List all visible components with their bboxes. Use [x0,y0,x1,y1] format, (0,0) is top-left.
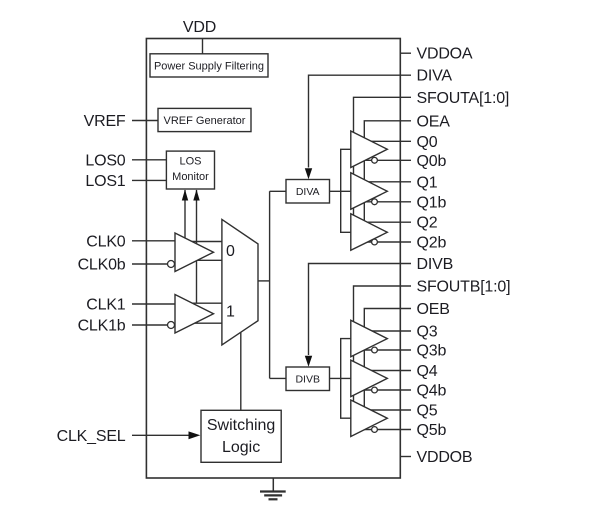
inversion bubble Q0b [372,157,378,163]
wire mux output [257,280,270,282]
wire Q2 output [360,221,411,223]
wire CLK1b input [132,324,168,326]
output buffer A3 [351,214,388,251]
input buffer 1 CLK0 [175,233,214,272]
svg-text:VDDOB: VDDOB [417,449,473,466]
wire OEA route [364,121,411,230]
inversion bubble Q5b [372,427,378,433]
wire DIVB output to bank B [330,377,351,379]
wire SFOUTA route [354,97,412,226]
wire Q1b output [362,201,411,203]
pin stub VDDOA [400,52,411,54]
arrowhead LOS tap 2 [193,190,199,201]
LOS monitor box [166,151,214,189]
svg-text:DIVA: DIVA [417,68,453,85]
wire buffer1 output complement [190,259,223,261]
wire DIVA output to bank A [330,190,351,192]
svg-text:1: 1 [226,304,235,321]
svg-text:Power Supply Filtering: Power Supply Filtering [154,60,264,72]
ground [260,478,286,499]
svg-text:SFOUTB[1:0]: SFOUTB[1:0] [417,279,511,296]
svg-text:CLK0b: CLK0b [78,257,126,274]
svg-text:CLK1: CLK1 [86,297,126,314]
inversion bubble Q4b [372,387,378,393]
mux [222,219,258,345]
wire CLK0b input [132,263,168,265]
wire DIVA box input [270,190,286,192]
svg-text:DIVA: DIVA [296,186,320,198]
wire LOS monitor tap 2 [196,190,198,303]
svg-text:CLK0: CLK0 [86,233,126,250]
svg-text:Q0: Q0 [417,134,438,151]
output buffer A2 [351,173,388,210]
divider DIVB box [286,367,330,391]
wire LOS monitor tap 1 [184,190,186,242]
wire SFOUTB route [354,286,412,413]
pin stub VDDOB [400,456,411,458]
svg-text:Logic: Logic [222,439,260,456]
inversion bubble CLK1b [168,322,175,329]
svg-text:LOS: LOS [179,155,201,167]
svg-text:OEA: OEA [417,113,451,130]
svg-text:Q1b: Q1b [417,194,447,211]
svg-text:Q2: Q2 [417,215,438,232]
svg-text:DIVB: DIVB [295,374,320,386]
output buffer B2 [351,360,388,397]
wire VDD drop [202,39,204,54]
wire buffer1 output true [190,241,223,243]
arrowhead into DIVB [305,356,312,367]
svg-text:Q3b: Q3b [417,343,447,360]
wire Q2b output [362,241,411,243]
svg-text:Q2b: Q2b [417,235,447,252]
wire VREF input [132,120,158,122]
inversion bubble Q3b [372,347,378,353]
wire Q1 output [360,181,411,183]
wire Q0 output [360,140,411,142]
output buffer B3 [351,400,388,437]
svg-text:OEB: OEB [417,301,450,318]
wire buffer2 output true [190,302,223,304]
wire OEB route [364,309,411,418]
svg-text:0: 0 [226,243,235,260]
arrowhead CLK_SEL [189,431,201,439]
svg-text:LOS0: LOS0 [85,152,125,169]
wire bank A input bus [341,149,351,232]
output buffer A1 [351,131,388,168]
svg-text:Q5b: Q5b [417,422,447,439]
svg-text:Q3: Q3 [417,324,438,341]
svg-text:Q5: Q5 [417,403,438,420]
arrowhead LOS tap 1 [182,190,188,201]
power supply filtering box [150,54,268,77]
svg-text:Q0b: Q0b [417,153,447,170]
input buffer 2 CLK1 [175,295,214,334]
output buffer B1 [351,320,388,357]
wire buffer2 output complement [190,322,223,324]
switching logic box [201,410,281,462]
wire DIVA pin route [309,75,412,167]
VREF generator box U_VREF [158,108,251,131]
wire Q5 output [360,409,411,411]
wire Q0b output [362,159,411,161]
svg-text:Switching: Switching [207,417,275,434]
wire bank B input bus [341,339,351,419]
svg-text:CLK_SEL: CLK_SEL [57,428,126,445]
inversion bubble Q2b [372,239,378,245]
svg-text:LOS1: LOS1 [85,173,125,190]
wire Q5b output [362,429,411,431]
wire LOS0 input [132,159,166,161]
wire DIVB pin route [309,264,412,356]
arrowhead into DIVA [305,168,312,179]
svg-text:VDDOA: VDDOA [417,46,473,63]
wire LOS1 input [132,179,166,181]
svg-text:Q4b: Q4b [417,383,447,400]
svg-text:SFOUTA[1:0]: SFOUTA[1:0] [417,90,510,107]
inversion bubble CLK0b [168,261,175,268]
svg-text:DIVB: DIVB [417,256,454,273]
wire Q4 output [360,370,411,372]
svg-text:Monitor: Monitor [172,171,209,183]
svg-text:Q1: Q1 [417,174,438,191]
wire Q3b output [362,349,411,351]
wire divider feed vertical [269,191,271,378]
wire CLK0 input [132,240,175,242]
svg-text:VREF: VREF [84,113,126,130]
wire Q4b output [362,389,411,391]
main block boundary [146,39,400,479]
wire CLK1 input [132,303,175,305]
inversion bubble Q1b [372,199,378,205]
wire Q3 output [360,330,411,332]
divider DIVA box [286,180,330,204]
svg-text:Q4: Q4 [417,363,438,380]
wire DIVB box input [270,377,286,379]
wire mux select [240,330,242,410]
svg-text:CLK1b: CLK1b [78,318,126,335]
svg-text:VDD: VDD [183,19,216,36]
svg-text:VREF Generator: VREF Generator [164,115,246,127]
wire CLK_SEL input [132,434,198,436]
